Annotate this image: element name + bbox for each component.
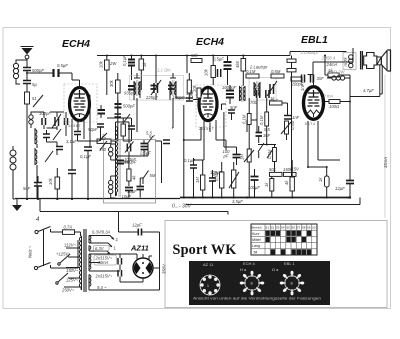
switch S3 pickup [258,140,264,158]
capacitor 100pF [168,86,185,100]
capacitor IF1 primary pad [124,86,136,96]
resistor 0,3M [291,77,302,81]
svg-text:S8: S8 [302,226,306,230]
IF2 trimmer cap [267,81,277,96]
capacitor 500pF AVC [115,100,136,113]
svg-text:100pF: 100pF [173,95,185,100]
resistor 0,1M [246,69,259,78]
resistor grid leak [107,118,131,141]
wire detector output [184,105,201,198]
resistor 50k IF [187,73,197,100]
IF transformer 2 shield box [249,78,276,101]
socket AZ11 pinout [200,275,220,295]
wire V1 cathode lower [71,146,73,199]
svg-text:700: 700 [250,100,258,105]
osc padder capacitor [117,160,137,165]
svg-text:1: 1 [207,284,209,288]
osc top coil [116,122,118,140]
svg-text:3,1µF: 3,1µF [66,139,77,144]
svg-text:10k: 10k [204,68,209,76]
B- return wire [40,199,228,232]
band switch S1b [45,151,53,162]
primary taps [56,248,80,287]
mains switch [38,227,51,268]
svg-text:1k: 1k [318,177,323,182]
power transformer core [84,229,86,292]
svg-text:225pF: 225pF [145,95,158,100]
band filter coil L1 [29,112,37,128]
tap labels [56,243,79,293]
svg-text:0,1M: 0,1M [267,149,272,159]
resistor 10k 2W [99,56,118,96]
svg-text:24mA: 24mA [326,62,338,67]
svg-text:1M: 1M [240,154,245,160]
svg-text:250V~: 250V~ [61,288,75,293]
table filled contact cells [266,231,312,255]
capacitor AVC pair [115,114,131,122]
wire IF1 [134,73,176,100]
wire speaker return 35mA [383,75,388,218]
filament winding 4V [89,275,160,291]
mains terminal lower [34,266,37,269]
svg-text:2,5µF: 2,5µF [139,151,151,156]
svg-text:12µF: 12µF [132,223,142,228]
electrolytic 12&#181;F cathode [335,181,354,198]
svg-text:Mittel: Mittel [252,238,261,242]
svg-text:AZ11: AZ11 [130,244,149,253]
svg-text:1nF: 1nF [292,115,300,120]
svg-text:10µF: 10µF [122,194,132,199]
svg-text:4k8: 4k8 [235,61,240,68]
osc capacitor 2,5&#181;F [139,140,151,156]
electrolytic 12&#181;F B+ [119,223,160,236]
svg-text:1nF: 1nF [186,91,194,96]
svg-text:2 mA: 2 mA [323,94,334,99]
capacitor padder [128,118,135,141]
svg-text:150V~: 150V~ [66,268,79,273]
capacitor 0,5&#181;F input [26,63,68,77]
svg-text:10µF: 10µF [127,189,137,194]
socket EBL1 pinout [280,271,305,296]
svg-text:EBL1: EBL1 [301,34,328,46]
resistor 10k [48,168,60,199]
terminal resistor a [287,59,296,62]
svg-text:0,7A: 0,7A [64,225,73,230]
wire band section [37,128,66,199]
svg-text:5,5: 5,5 [264,127,270,132]
svg-text:2x315V~: 2x315V~ [95,274,113,279]
svg-text:10: 10 [312,226,316,230]
heater winding 6,3V/0,3A [89,230,119,251]
IF transformer T2 primary [254,81,260,97]
svg-text:3nF: 3nF [317,76,325,81]
oscillator section box [104,140,156,204]
resistor 51 ohm [25,92,44,107]
svg-text:2: 2 [116,237,119,242]
svg-text:100Ω: 100Ω [329,104,340,109]
svg-text:S4: S4 [281,226,285,230]
osc capacitor 10&#181;F [122,188,134,200]
svg-text:Lang: Lang [252,244,260,248]
osc band switch [96,133,107,141]
rectifier AZ11 [126,244,153,279]
heater winding 6,3V [89,246,110,255]
svg-text:10k: 10k [99,60,104,68]
wire B+ feed [153,232,167,290]
AVC line wire [186,198,360,205]
resistor 4k8 [235,56,246,87]
svg-text:S3: S3 [276,226,280,230]
socket ECH4 pinout [240,271,265,296]
osc switch 5,5 [146,131,153,144]
svg-text:AZ 11: AZ 11 [203,262,214,267]
resistor 50k [269,167,282,176]
svg-text:+125V~: +125V~ [56,252,71,257]
potentiometer 1M volume [240,149,255,198]
svg-text:0,5M: 0,5M [271,69,281,74]
junction dots top bus [106,55,108,57]
svg-text:0...- 30V: 0...- 30V [172,204,192,210]
svg-text:5µ: 5µ [32,82,37,87]
svg-text:1nF: 1nF [300,83,305,91]
tube V2 shield box [196,85,226,127]
wire EBL1 anode to transformer [313,48,353,83]
svg-text:222: 222 [252,85,261,90]
svg-text:50k: 50k [269,167,277,172]
mains terminal upper [35,230,38,233]
capacitor V2 screen [222,104,236,120]
tube V3 electrodes [308,90,320,106]
antenna coil L4 [10,146,16,199]
capacitor grid pair V2 [218,69,221,77]
svg-text:1,1 Ωm: 1,1 Ωm [157,68,171,73]
svg-text:0,5µF: 0,5µF [213,57,224,62]
resistor 10k V2 [204,56,216,86]
capacitor 1000pF [222,85,237,104]
capacitor 5u [23,79,37,92]
capacitor 5nF [23,176,42,199]
capacitor V1 cathode bypass [68,170,76,174]
resistor 50k top right [191,53,202,63]
wire AF node [249,145,276,150]
IF transformer T1 secondary coil [170,80,176,96]
svg-text:40mA: 40mA [98,260,109,265]
svg-text:4k: 4k [132,175,137,180]
junction dots chassis bus [26,196,351,200]
svg-text:12µF: 12µF [335,186,345,191]
svg-text:S2: S2 [271,226,275,230]
resistor 0,1M AVC b [259,98,269,145]
svg-text:0,1M: 0,1M [246,69,256,74]
capacitor 50pF [66,100,118,144]
svg-text:EBL 1: EBL 1 [284,261,296,266]
osc coupling coil b [109,176,113,198]
svg-text:pF: pF [223,154,229,159]
volume pot [229,162,239,198]
coupling capacitor pair [302,75,325,83]
svg-text:100µF: 100µF [248,185,260,190]
resistor 0,1M AVC a [242,98,252,149]
svg-text:0,5M: 0,5M [214,171,219,181]
svg-text:5nF: 5nF [230,105,238,110]
ground symbol [12,199,22,211]
wire AF coupling [194,159,205,161]
svg-text:Kurz: Kurz [252,232,260,236]
resistor 1k [139,56,147,91]
capacitor 200pF [252,82,304,99]
capacitor 1n [56,147,63,150]
oscillator coil L2 [35,128,37,144]
svg-text:1M: 1M [195,177,200,183]
svg-text:500pF: 500pF [123,104,135,109]
capacitor 0,5&#181;F screen stack [213,56,232,86]
wire antenna column [26,104,28,199]
svg-text:51: 51 [32,96,37,101]
resistor 1k AF [264,176,274,197]
svg-text:112V~: 112V~ [64,243,76,248]
loudspeaker voice coil [377,57,381,65]
svg-text:0,5M: 0,5M [290,120,295,130]
band/switch table frame [251,224,317,255]
RF choke [326,70,350,81]
resistor 1k detector load [270,96,288,116]
wire IF couplers to oscillator [137,98,257,132]
svg-text:J 458 4: J 458 4 [322,56,336,61]
resistor 1k anode [324,55,350,97]
variable capacitor C-tune1 [50,112,64,130]
IF transformer T1 primary coil [134,80,140,96]
svg-text:ECH4: ECH4 [62,38,90,50]
capacitor 10nF [266,90,279,104]
svg-text:30k: 30k [109,79,114,87]
svg-text:12: 12 [101,136,106,141]
svg-text:0,5µF: 0,5µF [57,63,68,68]
svg-text:935pF: 935pF [124,91,136,96]
osc main coil L6 [116,140,121,197]
svg-text:5nF: 5nF [23,186,31,191]
capacitor 500pF [23,66,44,79]
wire V1 pin leads [72,95,90,147]
coil L3 [35,148,37,165]
wire top bus drops [156,56,187,77]
wire V2 pin leads [199,98,226,160]
AF coupling capacitor 0,1&#181;F [184,158,197,198]
svg-text:Bereich: Bereich [252,226,263,230]
capacitor 0,1&#181;F V1 cathode [80,147,92,199]
capacitor 225pF [145,86,158,100]
svg-text:ECH 4: ECH 4 [243,261,256,266]
resistor 100 ohm [329,100,340,110]
svg-text:350V: 350V [162,263,167,274]
HT winding 2x315V [89,254,126,279]
capacitor 1nF [284,115,300,120]
fuse 0,7A [63,225,81,235]
band switch S1a [53,129,61,147]
capacitor 100pF AF [209,170,216,198]
tube V2 ECH4 envelope [199,87,217,120]
loudspeaker cone [381,50,390,71]
IF trimmer cap [151,76,161,100]
capacitor V2 input [176,98,199,101]
tube V1 ECH4 envelope [70,88,90,121]
svg-text:4: 4 [36,217,40,223]
svg-text:S6: S6 [291,226,295,230]
svg-text:2.Lautspr: 2.Lautspr [301,50,319,55]
resistor 4k cathode [284,160,294,198]
nameplate outer box [165,221,387,308]
svg-text:1k: 1k [264,182,269,187]
detector coil L5 [240,85,246,102]
svg-text:500pF: 500pF [32,68,44,73]
capacitor V1 anode bypass [98,105,106,118]
svg-text:S7: S7 [297,226,301,230]
svg-text:Ansicht von unten auf die Verd: Ansicht von unten auf die Verdrahtungsse… [193,296,321,301]
svg-text:35mA: 35mA [383,157,388,168]
main HT bus wire (top) [97,52,347,56]
svg-text:5 6 7 4: 5 6 7 4 [305,122,315,126]
antenna coupling coil [13,60,27,84]
capacitor [43,130,50,142]
table header row [252,226,316,230]
tube V3 EBL1 envelope [304,87,324,120]
svg-text:3 4 5 6 7: 3 4 5 6 7 [68,124,81,128]
svg-text:1000pF: 1000pF [222,85,237,90]
resistor 0,5M [214,162,224,198]
resistor 1M [195,160,205,198]
svg-text:3 4 5 6 7: 3 4 5 6 7 [201,127,214,131]
tube socket panel (black) [189,261,330,305]
osc coupling coil a [109,144,113,160]
texture labels (component values) [101,68,374,195]
electrolytic 100&#181;F [248,169,260,198]
svg-text:50pF: 50pF [88,127,98,132]
svg-text:3nF: 3nF [263,133,271,138]
wire V1 grid cap [66,73,80,88]
capacitor pad [65,112,68,130]
svg-text:6,3V/0,3A: 6,3V/0,3A [92,230,111,235]
antenna [21,47,34,67]
loudspeaker magnet [364,53,377,69]
svg-text:2: 2 [198,127,201,131]
tube V1 electrodes [73,90,86,117]
capacitor 3nF AF [256,126,271,140]
svg-text:9,4 ~: 9,4 ~ [97,285,107,290]
svg-text:H a: H a [240,267,247,272]
resistor 0,1M grid [267,145,276,173]
transformer primary winding [79,232,81,290]
svg-text:Sport WK: Sport WK [173,242,237,258]
resistor 0,5M [271,69,284,78]
svg-text:4k: 4k [284,180,289,185]
capacitor 100pF grid [97,124,104,141]
svg-text:5M: 5M [150,173,156,178]
IF transformer 1 shield box [130,76,184,101]
osc capacitor pair b [137,184,145,198]
osc trimmer [125,140,134,156]
ground bus wire (bottom) [15,198,180,200]
resistor 30k [109,73,120,100]
svg-text:5,7: 5,7 [149,134,155,139]
smoothing caps [118,254,143,282]
svg-text:0,1M: 0,1M [259,115,264,125]
resistor 150k [283,167,296,176]
svg-text:Netz ~: Netz ~ [28,245,33,258]
svg-text:125V~: 125V~ [66,278,79,283]
table row labels [252,232,261,255]
potentiometer 0,5M tone [281,120,295,140]
wire EBL1 cathode nets [292,56,383,181]
wire V2 screen drop [224,112,237,147]
socket panel labels [203,261,296,272]
resistor 150 ohm [97,133,118,152]
svg-text:Ω a: Ω a [272,267,279,272]
svg-text:S5: S5 [286,226,290,230]
capacitor 100pF det [223,147,241,165]
svg-text:2W: 2W [109,61,117,66]
trimmer capacitor 100pF [37,111,51,129]
svg-text:0,1µF: 0,1µF [122,55,127,66]
svg-text:100pF: 100pF [124,157,136,162]
capacitor 0,1&#181;F [122,55,135,80]
switch S4 pickup [267,149,273,158]
tube V2 electrodes [203,89,214,110]
resistor 1k bias [318,167,329,198]
svg-text:50k: 50k [191,53,199,58]
terminal resistor b [287,69,296,72]
oscillator switch S2 [100,141,107,150]
svg-text:3,5µF: 3,5µF [232,199,243,204]
svg-text:4,7µF: 4,7µF [363,88,374,93]
svg-text:0,1M: 0,1M [242,114,247,124]
osc grid resistor [127,156,137,186]
svg-text:0,1µF: 0,1µF [80,154,91,159]
tube V1 shield box (dashed) [64,84,97,122]
svg-text:10k: 10k [48,177,53,185]
svg-text:TA: TA [253,250,258,254]
oscillator trimmer pair [163,140,170,144]
osc switch 5M [143,171,156,185]
resistor 200 ohm [189,88,201,98]
svg-text:S1: S1 [265,226,269,230]
svg-text:6,3V: 6,3V [95,246,105,251]
wire osc nets [111,122,148,198]
svg-text:ECH4: ECH4 [196,36,224,48]
svg-text:S9: S9 [307,226,311,230]
wire osc to AF [156,141,162,183]
svg-text:1: 1 [114,246,117,251]
output transformer T3 [343,51,363,70]
chassis bus wire thick [180,197,350,199]
